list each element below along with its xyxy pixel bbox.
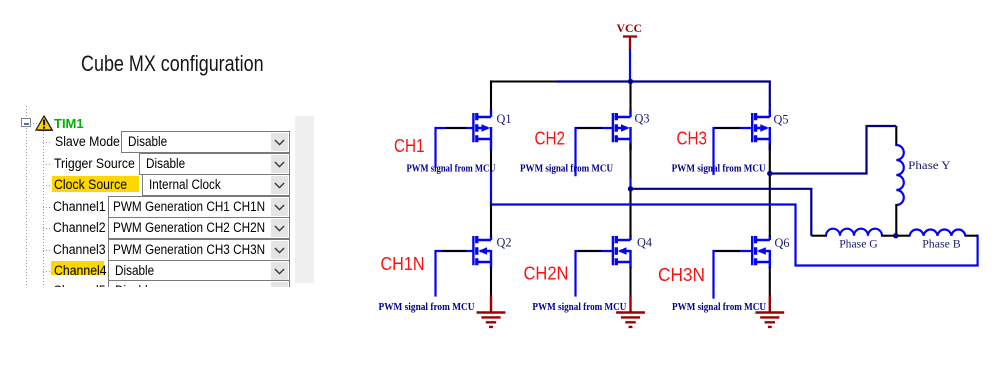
wire phase A blue loop: [491, 203, 978, 266]
TIM1: [54, 117, 84, 130]
svg-text:CH2: CH2: [535, 128, 566, 149]
warning icon: [35, 115, 54, 132]
transistor Q4: [613, 236, 631, 269]
title: [81, 51, 308, 77]
left config panel: [0, 0, 340, 287]
wire gate CH2N: [574, 250, 612, 297]
wire phase A black stub: [965, 235, 978, 237]
node leg3 output junction: [767, 171, 772, 176]
node VCC rail junction: [628, 79, 633, 84]
expand box: [21, 118, 31, 127]
wire neutral right stub: [898, 235, 911, 237]
wire leg3 source to ground: [769, 267, 771, 297]
wire neutral left stub: [881, 235, 894, 237]
svg-text:PWM signal from MCU: PWM signal from MCU: [379, 301, 475, 313]
svg-text:Q4: Q4: [637, 234, 652, 249]
svg-text:VCC: VCC: [617, 23, 643, 35]
scrollbar: [295, 116, 314, 283]
wire leg1 mid: [490, 150, 492, 174]
svg-text:Q1: Q1: [497, 111, 512, 126]
svg-text:PWM signal from MCU: PWM signal from MCU: [407, 163, 496, 175]
combo boxes: [121, 131, 290, 153]
svg-text:Phase G: Phase G: [839, 236, 878, 250]
wire leg2 source to ground: [629, 267, 631, 297]
wire phase B navy: [631, 188, 812, 236]
wire gate CH3N: [712, 250, 751, 299]
inductor Phase Y: [896, 145, 904, 205]
node leg2 output junction: [628, 186, 633, 191]
transistor Q3: [613, 110, 631, 151]
wire top rail navy: [556, 80, 770, 112]
wire gate CH1N: [434, 250, 473, 297]
wire neutral from Y: [895, 204, 897, 236]
transistor Q5: [752, 110, 770, 151]
svg-text:CH2N: CH2N: [524, 263, 569, 284]
wire phase C navy: [770, 126, 897, 175]
VCC symbol: [617, 23, 643, 82]
wire leg3 mid: [769, 144, 771, 237]
svg-text:CH1: CH1: [394, 135, 425, 156]
wire leg2 mid: [629, 144, 631, 179]
wire phase C black stub: [895, 126, 897, 146]
ground leg1: [477, 296, 506, 327]
svg-text:PWM signal from MCU: PWM signal from MCU: [532, 301, 626, 313]
ground leg3: [755, 296, 784, 327]
wire leg1 source to ground: [490, 267, 492, 297]
svg-text:Q2: Q2: [497, 234, 512, 249]
tree dotted lines: [26, 106, 27, 117]
transistor Q2: [473, 236, 491, 269]
svg-text:PWM signal from MCU: PWM signal from MCU: [672, 301, 766, 313]
row labels: [55, 131, 126, 153]
wire phase B black stub: [811, 235, 827, 237]
svg-text:PWM signal from MCU: PWM signal from MCU: [520, 163, 613, 175]
inductor Phase G: [826, 229, 882, 236]
svg-text:Phase B: Phase B: [922, 236, 961, 250]
node neutral junction: [893, 233, 898, 238]
svg-text:Q5: Q5: [774, 111, 789, 126]
wire gate CH3: [712, 127, 752, 175]
wire leg2 drain: [629, 82, 631, 113]
svg-text:PWM signal from MCU: PWM signal from MCU: [672, 163, 766, 175]
svg-text:CH1N: CH1N: [381, 253, 425, 274]
svg-text:Q6: Q6: [775, 235, 790, 250]
row highlights: [52, 176, 139, 192]
svg-text:CH3: CH3: [677, 127, 708, 148]
svg-text:CH3N: CH3N: [658, 264, 705, 285]
wire gate CH2: [574, 127, 612, 176]
transistor Q6: [752, 236, 770, 269]
svg-text:Phase Y: Phase Y: [908, 158, 951, 172]
wire gate CH1: [434, 127, 473, 168]
svg-text:Q3: Q3: [635, 110, 650, 125]
ground leg2: [616, 296, 645, 327]
transistor Q1: [473, 110, 491, 151]
inductor Phase B: [910, 230, 966, 236]
wire top rail black: [491, 80, 557, 112]
